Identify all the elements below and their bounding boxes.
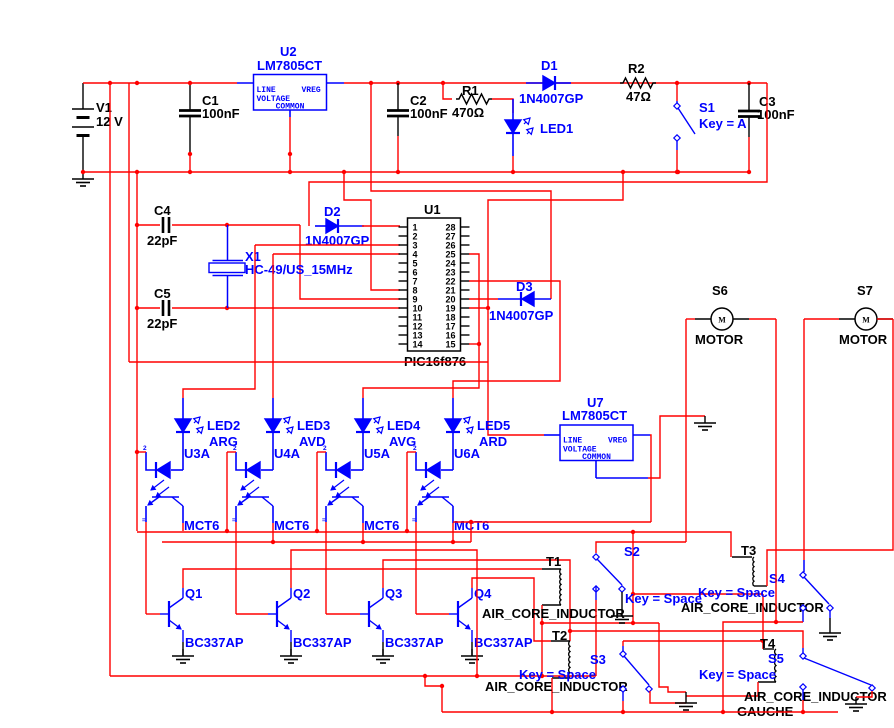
- svg-text:22pF: 22pF: [147, 316, 177, 331]
- svg-text:U5A: U5A: [364, 446, 391, 461]
- svg-text:U3A: U3A: [184, 446, 211, 461]
- svg-text:M: M: [862, 316, 870, 325]
- svg-text:100nF: 100nF: [757, 107, 795, 122]
- svg-text:U6A: U6A: [454, 446, 481, 461]
- svg-text:AIR_CORE_INDUCTOR: AIR_CORE_INDUCTOR: [482, 606, 625, 621]
- svg-text:14: 14: [413, 340, 423, 350]
- svg-text:S1: S1: [699, 100, 715, 115]
- svg-text:2: 2: [143, 445, 147, 452]
- svg-text:Key = Space: Key = Space: [519, 667, 596, 682]
- svg-text:LED3: LED3: [297, 418, 330, 433]
- svg-text:U4A: U4A: [274, 446, 301, 461]
- svg-text:Q3: Q3: [385, 586, 402, 601]
- svg-text:U2: U2: [280, 44, 297, 59]
- svg-text:Key = A: Key = A: [699, 116, 747, 131]
- svg-text:T4: T4: [760, 636, 776, 651]
- svg-text:47Ω: 47Ω: [626, 89, 651, 104]
- svg-text:LED1: LED1: [540, 121, 573, 136]
- svg-text:S6: S6: [712, 283, 728, 298]
- svg-text:D2: D2: [324, 204, 341, 219]
- svg-text:LINE: LINE: [563, 437, 582, 446]
- svg-text:VREG: VREG: [608, 437, 627, 446]
- svg-text:1N4007GP: 1N4007GP: [305, 233, 370, 248]
- svg-text:T1: T1: [546, 554, 561, 569]
- svg-text:MCT6: MCT6: [274, 518, 309, 533]
- svg-text:HC-49/US_15MHz: HC-49/US_15MHz: [245, 262, 353, 277]
- svg-text:VREG: VREG: [302, 86, 321, 95]
- svg-text:AVD: AVD: [299, 434, 325, 449]
- svg-text:Key = Space: Key = Space: [625, 591, 702, 606]
- svg-text:Key = Space: Key = Space: [698, 585, 775, 600]
- svg-text:BC337AP: BC337AP: [293, 635, 352, 650]
- svg-text:D1: D1: [541, 58, 558, 73]
- svg-text:MCT6: MCT6: [184, 518, 219, 533]
- svg-text:470Ω: 470Ω: [452, 105, 484, 120]
- svg-text:LINE: LINE: [257, 86, 276, 95]
- svg-text:100nF: 100nF: [202, 106, 240, 121]
- svg-text:15: 15: [445, 340, 455, 350]
- svg-text:S2: S2: [624, 544, 640, 559]
- svg-text:C5: C5: [154, 286, 171, 301]
- svg-text:LM7805CT: LM7805CT: [562, 408, 627, 423]
- svg-text:MCT6: MCT6: [364, 518, 399, 533]
- svg-text:1N4007GP: 1N4007GP: [519, 91, 584, 106]
- svg-text:LED4: LED4: [387, 418, 421, 433]
- svg-text:1N4007GP: 1N4007GP: [489, 308, 554, 323]
- svg-text:Q1: Q1: [185, 586, 202, 601]
- svg-text:BC337AP: BC337AP: [185, 635, 244, 650]
- svg-text:S5: S5: [768, 651, 784, 666]
- svg-text:D3: D3: [516, 279, 533, 294]
- svg-text:R2: R2: [628, 61, 645, 76]
- svg-text:LM7805CT: LM7805CT: [257, 58, 322, 73]
- svg-text:U1: U1: [424, 202, 441, 217]
- svg-text:100nF: 100nF: [410, 106, 448, 121]
- svg-text:22pF: 22pF: [147, 233, 177, 248]
- svg-text:T3: T3: [741, 543, 756, 558]
- svg-text:BC337AP: BC337AP: [385, 635, 444, 650]
- svg-text:S4: S4: [769, 571, 786, 586]
- svg-text:S3: S3: [590, 652, 606, 667]
- svg-text:T2: T2: [552, 628, 567, 643]
- svg-text:S7: S7: [857, 283, 873, 298]
- svg-text:MOTOR: MOTOR: [839, 332, 888, 347]
- svg-text:BC337AP: BC337AP: [474, 635, 533, 650]
- svg-text:LED5: LED5: [477, 418, 510, 433]
- svg-text:MOTOR: MOTOR: [695, 332, 744, 347]
- svg-text:2: 2: [413, 445, 417, 452]
- svg-text:2: 2: [323, 445, 327, 452]
- svg-text:ARD: ARD: [479, 434, 507, 449]
- svg-text:M: M: [718, 316, 726, 325]
- svg-text:LED2: LED2: [207, 418, 240, 433]
- svg-text:Key = Space: Key = Space: [699, 667, 776, 682]
- svg-text:R1: R1: [462, 83, 479, 98]
- svg-text:2: 2: [233, 445, 237, 452]
- svg-text:C4: C4: [154, 203, 171, 218]
- svg-text:Q2: Q2: [293, 586, 310, 601]
